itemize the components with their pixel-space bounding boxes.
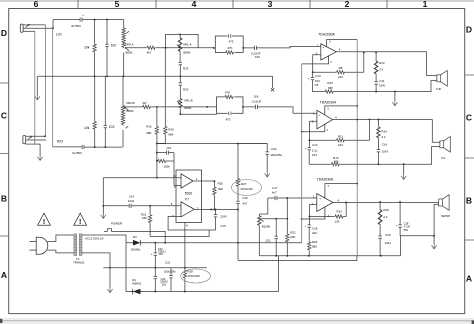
- node U3 fb: [309, 139, 311, 141]
- svg-text:AC12.5V/2.2A: AC12.5V/2.2A: [85, 237, 103, 241]
- svg-text:22K: 22K: [290, 235, 295, 239]
- node fader junction: [206, 106, 208, 108]
- node plusV R27 branch: [237, 242, 239, 244]
- node R21 top: [149, 205, 151, 207]
- rail A vertical: [301, 64, 303, 243]
- svg-text:R16: R16: [146, 124, 152, 128]
- ground bus drop to ground: [36, 76, 38, 95]
- warning triangle 2: [74, 213, 87, 225]
- jack J2 sleeve wire: [26, 143, 40, 145]
- wire secondary bottom to zero: [82, 253, 110, 268]
- plusV rail: [126, 242, 302, 244]
- svg-text:680: 680: [334, 160, 339, 164]
- svg-text:R/O: R/O: [57, 140, 63, 144]
- jack J2 tip contact wire: [26, 135, 45, 137]
- svg-text:2: 2: [345, 0, 350, 9]
- wire R21 bottom loop: [150, 230, 209, 236]
- svg-text:+: +: [305, 146, 307, 150]
- cross mark test point: [271, 88, 274, 91]
- resistor R20 8k8: [213, 181, 215, 210]
- node VR1-A top: [179, 33, 181, 35]
- AC plug prongs: [30, 241, 37, 250]
- svg-text:-: -: [323, 53, 324, 57]
- svg-text:R11: R11: [338, 135, 343, 139]
- svg-text:16V: 16V: [312, 153, 317, 157]
- capacitor C16 4u7: [236, 201, 239, 203]
- capacitor C28 4.7uF: [399, 202, 401, 236]
- jack J1 L input body: [20, 24, 23, 32]
- wire filter bridge right down: [174, 153, 181, 186]
- wire bus end down: [272, 76, 274, 88]
- capacitor 102 sub: [275, 219, 277, 256]
- svg-text:B50K: B50K: [126, 50, 133, 54]
- wire U3 pin5 supply: [325, 106, 357, 115]
- wire U1B pin6 loop: [168, 216, 215, 230]
- node 102 top: [275, 218, 277, 220]
- svg-text:R27: R27: [241, 182, 247, 186]
- svg-text:R14: R14: [382, 130, 388, 134]
- svg-text:104J: 104J: [128, 199, 135, 203]
- node U4 pin3 railA: [301, 218, 303, 220]
- svg-text:A: A: [466, 274, 472, 284]
- svg-text:10k: 10k: [84, 126, 90, 130]
- ground symbol ch1: [392, 101, 397, 105]
- potentiometer VR3-B B50K: [122, 76, 124, 147]
- wire C28 bottom to speaker return: [400, 235, 434, 237]
- node bus 102 ch1: [106, 75, 108, 77]
- node 102 bottom: [275, 255, 277, 257]
- ground bus horizontal: [37, 75, 272, 77]
- svg-text:R20: R20: [218, 181, 224, 185]
- svg-text:+: +: [308, 76, 310, 80]
- node 102 C2 top: [106, 19, 108, 21]
- svg-text:R25: R25: [383, 208, 389, 212]
- node block2 right: [242, 106, 244, 108]
- op-amp U2 TDA2030A triangle: [321, 44, 337, 60]
- svg-text:100k: 100k: [163, 164, 170, 168]
- node sub pin1 R22: [286, 197, 288, 199]
- capacitor 473 ch1 on top edge: [227, 34, 232, 37]
- node R20 bottom: [213, 209, 215, 211]
- wire jack1 sleeve down: [34, 31, 36, 144]
- right border zone ticks: [465, 75, 474, 240]
- resistor R4 4k7 ch2: [125, 106, 157, 108]
- svg-text:C: C: [1, 111, 7, 121]
- svg-text:+: +: [323, 45, 325, 49]
- capacitor 473 ch2 on bottom edge: [228, 112, 233, 115]
- capacitor C24 104J series: [129, 204, 131, 208]
- svg-text:1N5401: 1N5401: [131, 247, 142, 251]
- svg-text:1: 1: [423, 0, 428, 9]
- wire ch2 return line: [309, 147, 440, 165]
- svg-text:A: A: [1, 270, 7, 280]
- svg-text:B50K: B50K: [185, 106, 192, 110]
- svg-text:680: 680: [312, 245, 317, 249]
- svg-text:B: B: [1, 194, 7, 204]
- resistor R8 224 fb: [313, 71, 364, 73]
- wire VR1-B bottom: [180, 109, 216, 115]
- svg-text:22U: 22U: [312, 231, 317, 235]
- svg-text:4u750V: 4u750V: [71, 24, 81, 28]
- node R14 top: [377, 119, 379, 121]
- svg-text:+: +: [319, 113, 321, 117]
- node jack2 tip: [44, 135, 46, 137]
- node zero transformer: [109, 267, 111, 269]
- svg-text:+: +: [82, 13, 84, 17]
- node bus VR3: [123, 75, 125, 77]
- page bottom edge line: [0, 320, 474, 322]
- wire U4 pin3 down: [302, 207, 325, 219]
- zero volt bus: [103, 267, 207, 269]
- capacitor C11 104J: [374, 82, 377, 84]
- svg-text:C8: C8: [315, 83, 319, 87]
- svg-text:2.2: 2.2: [383, 215, 387, 219]
- resistor 47K ch1 on bottom edge: [225, 50, 235, 55]
- IC U1 5532 box: [176, 170, 202, 222]
- node R13 top: [375, 51, 377, 53]
- svg-text:10k: 10k: [84, 46, 90, 50]
- wire ch1 ground stem: [394, 92, 396, 102]
- svg-text:R13: R13: [379, 61, 385, 65]
- svg-text:VR3-A: VR3-A: [125, 42, 134, 46]
- svg-text:F/L: F/L: [441, 156, 446, 160]
- jack J2 switch arrow: [28, 136, 32, 139]
- capacitor C20 100u/35v: [266, 152, 269, 154]
- ground symbol jack2: [38, 156, 43, 160]
- resistor R11 224 fb: [310, 139, 370, 141]
- potentiometer VR3-A B50K: [123, 20, 125, 77]
- svg-text:2.2u: 2.2u: [312, 149, 318, 153]
- svg-text:VR1-B: VR1-B: [184, 99, 193, 103]
- svg-text:B50K: B50K: [127, 109, 134, 113]
- wire U2 pin2: [313, 55, 321, 72]
- svg-text:C20: C20: [271, 147, 277, 151]
- svg-text:0.22UF: 0.22UF: [252, 100, 262, 104]
- wire U3 pin2: [310, 121, 317, 140]
- node C23 minus: [154, 291, 156, 293]
- svg-text:C18: C18: [312, 227, 318, 231]
- svg-text:-: -: [319, 204, 320, 208]
- wire jack2 sleeve to ground: [39, 144, 41, 156]
- page bottom-right corner mark: [472, 320, 474, 324]
- svg-text:C15: C15: [220, 224, 226, 228]
- resistor R23 22k fb: [310, 203, 347, 217]
- svg-text:R24: R24: [312, 240, 318, 244]
- op-amp U1B triangle: [181, 202, 194, 217]
- svg-text:R23: R23: [183, 87, 189, 91]
- wire C20 branch: [238, 144, 267, 173]
- wire U4 output: [333, 202, 439, 204]
- svg-text:4u7: 4u7: [243, 202, 248, 206]
- capacitor C3 4u7/50V series: [82, 145, 84, 149]
- node U4 out fb: [345, 202, 347, 204]
- node 4k7 ch1 out: [165, 47, 167, 49]
- svg-text:B100K: B100K: [262, 224, 271, 228]
- capacitor C8 2.2U: [311, 72, 313, 91]
- svg-text:5532: 5532: [185, 192, 193, 196]
- wire U1B output: [194, 209, 238, 211]
- capacitor C19 104J: [378, 236, 381, 238]
- svg-text:L/O: L/O: [56, 33, 62, 37]
- wiper arrow VR1-B: [177, 101, 180, 104]
- wire to 5532 pin3: [103, 177, 181, 179]
- capacitor C2 102: [106, 20, 108, 77]
- svg-text:104J: 104J: [379, 83, 386, 87]
- svg-text:C21: C21: [165, 261, 171, 265]
- jack J2 R input body: [23, 136, 26, 144]
- resistor 100k: [167, 160, 175, 162]
- resistor R14 2.2: [377, 120, 379, 150]
- svg-text:R8: R8: [339, 66, 343, 70]
- diode D3 1N5401: [132, 239, 142, 246]
- ellipse mark R27: [232, 180, 262, 196]
- potentiometer VR1-B B50K: [179, 98, 182, 109]
- svg-text:102: 102: [111, 44, 117, 48]
- wire minus branch: [125, 243, 127, 292]
- node U1A out R20: [213, 180, 215, 182]
- ground symbol SW: [432, 245, 437, 249]
- node U2 fb: [312, 71, 314, 73]
- node C19 bottom: [380, 255, 382, 257]
- resistor R16 68K: [156, 107, 158, 143]
- node C22 zero: [154, 267, 156, 269]
- capacitor C22 3300U: [154, 243, 156, 268]
- resistor R13 3.3: [375, 52, 377, 81]
- svg-text:C10: C10: [312, 143, 318, 147]
- page bottom-left corner mark: [0, 319, 2, 323]
- wire U4 pin5 supply: [325, 184, 357, 199]
- svg-text:4u750V: 4u750V: [72, 151, 82, 155]
- rail B vertical: [356, 40, 358, 256]
- node R28 bottom: [184, 291, 186, 293]
- svg-text:104J: 104J: [382, 150, 389, 154]
- svg-text:TDA2030A: TDA2030A: [317, 178, 334, 182]
- node R27 line on U1B out: [237, 209, 239, 211]
- wire U3 pin3 railA link: [302, 124, 325, 132]
- wire plug to transformer bottom: [47, 250, 74, 253]
- svg-text:!: !: [43, 219, 45, 226]
- node VR1-B bottom: [179, 113, 181, 115]
- svg-text:VR3-B: VR3-B: [126, 101, 135, 105]
- svg-text:5: 5: [115, 0, 120, 9]
- svg-text:224J: 224J: [220, 214, 227, 218]
- wire R11 up to output: [369, 119, 371, 140]
- svg-text:10K: 10K: [142, 216, 147, 220]
- svg-text:F/R: F/R: [436, 87, 441, 91]
- svg-text:102: 102: [266, 239, 271, 243]
- svg-text:+: +: [304, 224, 306, 228]
- svg-text:16V: 16V: [253, 95, 258, 99]
- wire U1 pin4 down: [184, 222, 186, 269]
- ground symbol C20: [265, 173, 270, 177]
- op-amp U1A triangle: [181, 174, 193, 188]
- node bus 10k ch1: [94, 75, 96, 77]
- capacitor C10 2.2u: [308, 140, 310, 164]
- svg-text:TDA2030A: TDA2030A: [320, 100, 337, 104]
- svg-text:IN5401: IN5401: [132, 281, 142, 285]
- svg-text:4: 4: [192, 0, 197, 9]
- wire U1A output: [193, 180, 214, 182]
- minusV rail: [126, 291, 278, 293]
- block ch2 47K/473 rect: [217, 97, 244, 113]
- wire U4 pin2 loop: [310, 205, 317, 217]
- svg-text:VR1-A: VR1-A: [183, 43, 192, 47]
- resistor R1 10k: [94, 20, 96, 77]
- resistor R21 10K: [149, 206, 151, 237]
- wiper arrow VR3-B: [124, 107, 128, 110]
- svg-text:100u/35v: 100u/35v: [164, 270, 176, 274]
- warning triangle 1: [38, 213, 51, 225]
- svg-text:R10: R10: [327, 81, 333, 85]
- capacitor C5 0.22uF series ch1: [255, 46, 257, 50]
- wire U1 pin5 input: [103, 205, 181, 207]
- node C15 top: [215, 209, 217, 211]
- capacitor C23 3300U: [154, 268, 156, 292]
- page top edge: [0, 0, 474, 1]
- svg-text:R23: R23: [337, 209, 343, 213]
- svg-text:473: 473: [228, 40, 233, 44]
- transformer T2 secondary ripples: [79, 237, 82, 253]
- jack J1 switch arrow: [26, 24, 30, 27]
- node switch plusV: [164, 242, 166, 244]
- node U4 supply on rail: [356, 183, 358, 185]
- capacitor C14 104J: [377, 150, 380, 152]
- svg-text:C14: C14: [129, 195, 135, 199]
- resistor R10 680: [324, 90, 334, 93]
- svg-text:4u7: 4u7: [272, 190, 277, 194]
- wire C5 to TDA1 pin1: [263, 46, 321, 48]
- node block1 right: [242, 47, 244, 49]
- node filter tap1: [156, 152, 158, 154]
- node sub feed R27: [237, 143, 239, 145]
- ground symbol input: [101, 214, 106, 218]
- resistor R12 680: [331, 163, 341, 166]
- wire R to VR1-B wiper: [157, 106, 217, 108]
- capacitor C6 0.22uF series ch2: [256, 105, 258, 109]
- node input ground tie: [102, 205, 104, 207]
- svg-text:R28: R28: [187, 270, 193, 274]
- node C22 plus: [154, 242, 156, 244]
- wire mix join: [157, 142, 165, 144]
- node R8 output: [363, 51, 365, 53]
- diode D4 1N5401: [131, 288, 142, 295]
- capacitor chain C upper (R23): [179, 62, 182, 64]
- wire jack1 tip down: [44, 25, 46, 136]
- node SW return: [433, 235, 435, 237]
- svg-text:47K: 47K: [227, 46, 232, 50]
- capacitor C4 102 ch2: [104, 76, 106, 147]
- svg-text:104J: 104J: [385, 241, 392, 245]
- wire ch1 return line: [312, 81, 437, 92]
- node mixed sub signal: [156, 142, 158, 144]
- capacitor C17 4u7 series: [275, 196, 277, 200]
- node U4 fb: [309, 215, 311, 217]
- svg-text:C16: C16: [242, 196, 248, 200]
- svg-text:3.3: 3.3: [379, 67, 383, 71]
- svg-text:-: -: [319, 121, 320, 125]
- wire filter node down: [156, 144, 158, 178]
- svg-text:TRANS1: TRANS1: [73, 260, 85, 264]
- svg-text:R19: R19: [168, 128, 174, 132]
- speaker F/L: [440, 137, 450, 153]
- node pin3 wire: [156, 177, 158, 179]
- wire U2 pin5 supply: [327, 40, 358, 47]
- node wiper R22: [286, 218, 288, 220]
- node ch2 ground: [403, 163, 405, 165]
- wire ch2 ground stem: [403, 164, 405, 175]
- svg-text:16V: 16V: [255, 55, 260, 59]
- wire C6 to TDA2 pin1: [263, 107, 317, 113]
- jack J1 ring contact wire: [23, 27, 53, 29]
- svg-text:47K: 47K: [225, 90, 230, 94]
- wire R8 up to output: [363, 52, 365, 72]
- wire ch1 level to filter block: [166, 47, 214, 49]
- node mix R: [156, 106, 158, 108]
- ground symbol ch2: [401, 175, 406, 179]
- ellipse mark R28: [181, 269, 211, 283]
- svg-text:473: 473: [226, 118, 231, 122]
- node rail cross ch2: [356, 119, 358, 121]
- wire switch to plusV: [116, 232, 165, 243]
- svg-text:50V: 50V: [404, 228, 409, 232]
- node pin4 zero bus: [184, 267, 186, 269]
- wire zero to ground: [109, 268, 111, 289]
- capacitor C21 100u: [170, 268, 172, 292]
- wiper arrow VR1-A: [177, 45, 180, 48]
- node U3 supply rail: [356, 105, 358, 107]
- svg-text:B: B: [466, 196, 472, 206]
- wire plug to transformer top: [47, 235, 74, 241]
- ground symbol supply: [107, 288, 112, 292]
- svg-text:!: !: [79, 219, 81, 226]
- power switch lever: [104, 229, 116, 232]
- jack J2 ring contact wire: [26, 139, 47, 141]
- svg-text:D: D: [466, 25, 472, 35]
- svg-text:D: D: [1, 28, 7, 38]
- svg-text:470/1/2W: 470/1/2W: [187, 274, 200, 278]
- wire U2 pin3 down to railA: [302, 56, 329, 64]
- wire R27 branch bottom: [238, 256, 357, 261]
- transformer T2 primary ripples: [74, 237, 77, 253]
- wire L signal down to R/O line: [52, 28, 54, 147]
- node R24 bottom: [308, 255, 310, 257]
- wire block1 to C5: [243, 47, 262, 49]
- svg-text:224: 224: [338, 143, 343, 147]
- svg-text:6: 6: [34, 0, 39, 9]
- resistor R3 4k7: [126, 47, 166, 49]
- node R11 output: [369, 118, 371, 120]
- svg-text:B50K: B50K: [184, 51, 191, 55]
- wire ch1 mix down: [164, 48, 166, 126]
- svg-text:25V: 25V: [162, 282, 167, 286]
- node 102 C4 bottom: [104, 146, 106, 148]
- svg-text:68K: 68K: [168, 132, 173, 136]
- op-amp U4 TDA2030A triangle: [317, 194, 333, 212]
- wiper tick VR3-A: [126, 31, 129, 33]
- node L signal: [52, 27, 54, 29]
- resistor R22 22K: [286, 198, 288, 256]
- svg-text:101: 101: [166, 146, 171, 150]
- svg-text:C: C: [466, 113, 472, 123]
- svg-text:TDA2030A: TDA2030A: [318, 32, 335, 36]
- capacitor C 101: [157, 152, 174, 154]
- node R22 bottom: [286, 255, 288, 257]
- wire R input line: [53, 146, 123, 148]
- node chain on ground bus: [179, 75, 181, 77]
- svg-text:C14: C14: [382, 143, 388, 147]
- speaker SW/SP: [439, 195, 449, 211]
- resistor R27 470/1/2W vertical: [237, 144, 239, 202]
